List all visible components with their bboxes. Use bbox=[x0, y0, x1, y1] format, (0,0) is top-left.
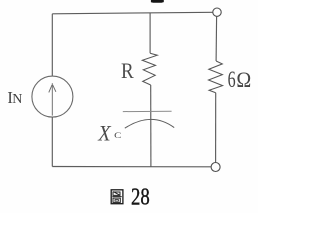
wire: middle branch top (junction on top wire down to R) bbox=[149, 13, 151, 53]
wire: top horizontal from source to output terminal bbox=[52, 12, 213, 14]
svg-text:I: I bbox=[7, 88, 12, 107]
wire: right vertical lower (6-ohm to bottom terminal) bbox=[215, 93, 217, 163]
svg-text:X: X bbox=[97, 121, 111, 146]
capacitor XC curved (bottom) plate bbox=[125, 119, 174, 128]
wire: right vertical upper (terminal to 6-ohm resistor) bbox=[215, 16, 218, 61]
svg-text:C: C bbox=[114, 131, 122, 141]
svg-text:N: N bbox=[12, 91, 22, 106]
svg-text:Ω: Ω bbox=[236, 67, 251, 92]
caption: number 28 bbox=[131, 183, 150, 210]
current source IN (circle) bbox=[32, 76, 73, 117]
terminal: top-right open circle bbox=[213, 8, 221, 16]
label R bbox=[121, 60, 134, 84]
cropped glyph fragment at top edge bbox=[151, 0, 164, 3]
label XC bbox=[97, 121, 121, 146]
label IN bbox=[7, 88, 22, 107]
resistor R (zigzag) bbox=[142, 53, 157, 85]
wire: R bottom to capacitor region bbox=[150, 85, 152, 167]
resistor 6 ohm (zigzag) bbox=[209, 61, 223, 93]
current source IN arrow bbox=[49, 83, 56, 115]
terminal: bottom-right open circle bbox=[211, 163, 220, 172]
svg-text:6: 6 bbox=[228, 67, 236, 92]
wire: left vertical upper (top wire to current source) bbox=[51, 14, 53, 76]
svg-text:28: 28 bbox=[131, 183, 150, 210]
wire: bottom horizontal bbox=[52, 166, 211, 168]
label 6 ohm bbox=[228, 67, 252, 93]
svg-text:R: R bbox=[121, 60, 134, 84]
wire: left vertical lower (current source to bottom wire) bbox=[51, 117, 53, 167]
caption: figure glyph (CJK drawn as strokes) bbox=[111, 190, 123, 204]
capacitor XC straight (top) plate bbox=[123, 110, 172, 112]
